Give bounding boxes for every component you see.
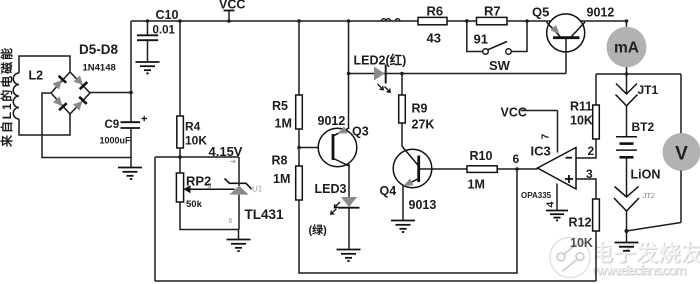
battery BT2 (616, 137, 637, 158)
svg-text:10K: 10K (570, 236, 593, 250)
svg-text:10K: 10K (570, 114, 593, 128)
svg-text:C9: C9 (105, 119, 120, 131)
svg-text:OPA335: OPA335 (521, 191, 552, 200)
capacitor C10 (137, 21, 158, 62)
wire L2 bottom loop (19, 114, 70, 135)
svg-text:SW: SW (489, 58, 511, 73)
resistor R9 (399, 95, 406, 123)
wire Q4 collector to R10 (420, 168, 467, 170)
wire JT2 to bottom node (626, 211, 628, 231)
svg-text:1M: 1M (468, 178, 485, 192)
wire Q3 collector down to LED3 (348, 164, 350, 197)
svg-text:来自L1的电磁能: 来自L1的电磁能 (0, 48, 14, 148)
wire battery plus horizontal (596, 73, 681, 75)
svg-text:1M: 1M (275, 117, 292, 131)
node junction bridge/C9 (129, 91, 133, 95)
wire R5 to R8 (298, 129, 300, 166)
meter V (663, 133, 700, 171)
inductor L2 (13, 73, 19, 119)
svg-text:50k: 50k (186, 199, 203, 210)
node pin 6 junction (515, 167, 519, 171)
wire R10 to IC3 output node (497, 168, 537, 170)
svg-text:91: 91 (474, 32, 488, 47)
svg-text:C10: C10 (156, 8, 179, 22)
svg-text:1N4148: 1N4148 (83, 63, 116, 74)
svg-text:10K: 10K (185, 134, 207, 148)
wire rail to mA meter (626, 21, 628, 28)
node R5 tap (297, 19, 301, 23)
meter mA (607, 27, 647, 68)
svg-text:4: 4 (545, 202, 557, 208)
transistor Q3 (318, 126, 357, 167)
svg-text:R9: R9 (412, 102, 428, 116)
wire rail to R4 (179, 21, 181, 116)
watermark 电子发烧友 (591, 240, 700, 266)
svg-text:JT2: JT2 (643, 191, 656, 200)
svg-text:Q4: Q4 (380, 184, 397, 198)
svg-text:VCC: VCC (501, 106, 527, 120)
transistor Q5 (547, 14, 586, 52)
capacitor C9 (121, 116, 148, 128)
wire R4 to 4.15V node (179, 148, 181, 157)
wire pin 3 to R12 (576, 179, 596, 199)
power VCC symbol top (224, 11, 235, 23)
resistor R11 (593, 105, 600, 139)
wire C9 to ground (130, 128, 132, 167)
wire battery plus to V meter (680, 74, 682, 134)
svg-text:R5: R5 (272, 99, 288, 113)
connector JT2 (614, 187, 639, 212)
wire reference bottom rail (155, 280, 596, 282)
wire R8 down to feedback rail (299, 169, 517, 273)
ground under LED3 (337, 250, 361, 262)
svg-text:V: V (675, 144, 688, 165)
wire R9 to Q4 base (401, 123, 403, 147)
wire junction to Q3 base (299, 147, 332, 149)
svg-text:0.01: 0.01 (153, 25, 176, 37)
svg-text:43: 43 (427, 31, 441, 46)
svg-text:R10: R10 (470, 149, 493, 163)
svg-text:9012: 9012 (318, 114, 346, 128)
wire LED3 to ground (348, 209, 350, 250)
shunt regulator U1 TL431 (225, 157, 252, 230)
resistor R10 (467, 166, 497, 173)
resistor R6 (418, 17, 447, 24)
svg-text:27K: 27K (412, 118, 435, 132)
svg-text:R8: R8 (272, 154, 288, 168)
resistor R5 (296, 95, 303, 129)
wire JT1 to battery (626, 106, 628, 137)
resistor R7 (477, 17, 508, 24)
svg-text:R6: R6 (427, 4, 444, 19)
resistor R8 (296, 166, 303, 200)
wire RP2 wiper to TL431 ref (184, 185, 235, 193)
svg-text:VCC: VCC (219, 0, 245, 12)
node 4.15V net (155, 156, 239, 158)
wire 4.15V to RP2 (179, 157, 181, 173)
wire mA bottom to battery top node (626, 67, 628, 74)
ground under battery minus (615, 231, 639, 251)
svg-text:Q5: Q5 (532, 5, 549, 20)
svg-text:R4: R4 (185, 120, 201, 134)
svg-text:BT2: BT2 (632, 120, 655, 134)
svg-text:D5-D8: D5-D8 (79, 42, 119, 57)
svg-text:6: 6 (513, 152, 520, 166)
svg-text:R11: R11 (570, 100, 592, 114)
svg-text:2: 2 (588, 144, 595, 158)
svg-text:4.15V: 4.15V (209, 144, 243, 159)
wire C9 column from rail to cap (130, 21, 132, 122)
wire pin 4 to ground (556, 184, 558, 211)
node C10 tap (146, 19, 150, 23)
ground under C9 (118, 168, 142, 180)
wire rail to Q3 emitter (348, 21, 350, 129)
node R6/R7 junction (465, 19, 469, 23)
wire L2 top loop (19, 56, 70, 73)
node battery minus junction (625, 229, 629, 233)
svg-text:1M: 1M (273, 172, 290, 186)
svg-text:mA: mA (614, 40, 639, 57)
wire main VCC rail (131, 20, 627, 22)
ground under TL431 (227, 230, 251, 252)
node R7 right junction (525, 19, 529, 23)
wire Q5 base down to LED2 line (565, 39, 567, 74)
wire R11 column (595, 74, 597, 105)
svg-text:LED2(红): LED2(红) (354, 53, 407, 68)
watermark elecfans logo (550, 238, 590, 278)
svg-text:LED3: LED3 (315, 182, 347, 196)
switch SW (467, 21, 527, 54)
wire bridge plus output to C9 column (90, 92, 131, 94)
ground under Q4 (391, 221, 415, 233)
svg-text:TL431: TL431 (245, 207, 285, 222)
node R9 tap (400, 72, 404, 76)
inductor bead bumps on rail (382, 19, 400, 21)
ground under IC3 pin 4 (546, 211, 568, 221)
wire Q4 emitter to ground (402, 186, 404, 221)
wire rail to R5 (298, 21, 300, 95)
potentiometer RP2 (176, 173, 183, 202)
svg-text:L2: L2 (29, 69, 44, 83)
wire VCC to pin 7 (521, 111, 558, 153)
watermark www.elecfans.com (591, 262, 688, 279)
svg-text:9012: 9012 (587, 6, 615, 20)
node R4 tap (178, 19, 182, 23)
wire RP2 bottom to TL431 anode (180, 202, 239, 230)
svg-text:R12: R12 (569, 216, 592, 230)
node R5/R8/Q3 base junction (297, 146, 301, 150)
wire V meter return diagonal (627, 223, 682, 232)
svg-text:JT1: JT1 (638, 83, 659, 97)
svg-text:7: 7 (540, 134, 552, 140)
connector JT1 (616, 84, 638, 106)
wire R12 to bottom rail (595, 231, 597, 281)
svg-text:9013: 9013 (409, 198, 437, 212)
svg-text:6: 6 (229, 218, 233, 225)
ground under C10 (136, 62, 160, 73)
resistor R12 (593, 199, 600, 231)
svg-text:LiON: LiON (631, 168, 661, 182)
wire bridge minus output down and right to ground node (42, 93, 131, 158)
wire reference loop left edge (154, 157, 156, 281)
transistor Q4 (393, 147, 432, 190)
svg-text:www.elecfans.com: www.elecfans.com (591, 262, 687, 278)
svg-text:U1: U1 (252, 185, 263, 194)
svg-text:(绿): (绿) (309, 223, 328, 237)
svg-text:IC3: IC3 (531, 144, 551, 159)
wire tap to R9 (401, 74, 403, 96)
LED LED2 (374, 65, 390, 93)
svg-text:Q3: Q3 (352, 125, 369, 139)
wire node to JT1 (626, 74, 628, 94)
wire LED2 branch line (349, 73, 567, 75)
wire battery to JT2 (626, 158, 628, 197)
resistor R4 (177, 116, 184, 148)
wire R11 to pin 2 (576, 139, 596, 158)
LED LED3 (331, 197, 360, 214)
svg-text:1000uF: 1000uF (100, 136, 132, 146)
bridge rectifier D5-D8 (51, 72, 90, 114)
op-amp IC3 (538, 148, 577, 190)
node mA tap on rail (625, 19, 629, 23)
svg-text:R7: R7 (484, 4, 501, 19)
wire V meter bottom (680, 171, 682, 223)
svg-text:3: 3 (586, 167, 593, 181)
